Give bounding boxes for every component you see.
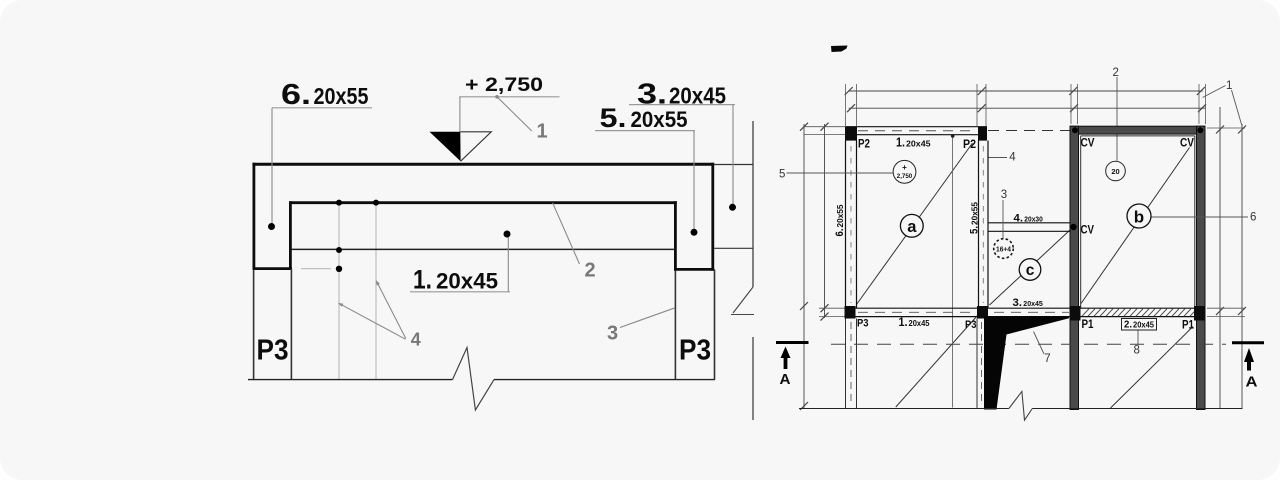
label 5.20x55 xyxy=(600,103,688,133)
svg-text:P3: P3 xyxy=(857,318,869,330)
right dimension line outer xyxy=(1238,124,1246,408)
callout 2 leader xyxy=(1116,77,1118,161)
label CV top-right xyxy=(1180,138,1194,150)
svg-text:a: a xyxy=(907,218,917,236)
P1 column right xyxy=(1194,306,1206,321)
label 6.20x55 xyxy=(281,79,369,111)
columns below P3 dashed xyxy=(846,319,987,409)
callout 7 xyxy=(1044,353,1050,365)
svg-text:3.: 3. xyxy=(637,79,667,111)
callout 3 leader xyxy=(1002,200,1004,238)
callout 3 xyxy=(1001,189,1007,201)
column P3 right outline xyxy=(675,269,714,379)
column P3 left outline xyxy=(254,269,292,380)
label 6.20x55 vertical xyxy=(834,204,846,236)
label 5.20x55 vertical xyxy=(968,202,980,234)
svg-text:20x55: 20x55 xyxy=(969,202,979,225)
callout 1 xyxy=(1226,80,1232,92)
stair cut wedge xyxy=(984,316,1069,410)
beam inner left edge xyxy=(289,201,292,268)
callout 1 leaders xyxy=(1203,86,1242,127)
svg-text:3: 3 xyxy=(607,323,618,345)
svg-text:1.: 1. xyxy=(896,136,905,150)
callout 8 leader xyxy=(1137,331,1139,346)
diagonal bay bottom-right xyxy=(1111,327,1194,409)
svg-text:20x45: 20x45 xyxy=(1133,321,1155,330)
label P2 right xyxy=(963,139,976,151)
svg-text:P3: P3 xyxy=(965,319,977,331)
label P3 plan left xyxy=(857,318,869,330)
svg-text:6.: 6. xyxy=(834,229,846,237)
section marker A right xyxy=(1232,343,1264,371)
beam row P3-P1 xyxy=(846,308,1206,316)
long dashed line xyxy=(831,343,1226,345)
svg-text:A: A xyxy=(780,372,792,388)
svg-text:A: A xyxy=(1246,374,1258,391)
title block mark xyxy=(831,46,848,53)
left dimension line outer xyxy=(800,123,808,410)
beam inner top chord xyxy=(289,201,677,204)
diagonal bay c xyxy=(990,230,1071,306)
svg-text:+: + xyxy=(902,163,907,172)
svg-text:20x30: 20x30 xyxy=(1024,214,1043,223)
ground line with break xyxy=(248,348,715,411)
vertical beam 5.20x55 xyxy=(979,141,989,309)
callout 2 elevation xyxy=(553,203,580,264)
hidden beam to CV dashed xyxy=(988,130,1070,132)
beam outer right edge xyxy=(711,163,714,271)
beam 4.20x30 xyxy=(988,223,1070,232)
svg-text:4.: 4. xyxy=(1014,212,1024,224)
svg-text:P2: P2 xyxy=(858,139,870,151)
callout 7 leader xyxy=(1034,332,1045,355)
beam soffit line xyxy=(291,248,675,250)
callout 4 xyxy=(1009,152,1016,164)
wall inner face lines xyxy=(1081,136,1195,308)
label 1.20x45 xyxy=(413,265,498,295)
svg-text:1: 1 xyxy=(1226,80,1232,92)
svg-text:1.: 1. xyxy=(899,317,908,329)
svg-text:20x55: 20x55 xyxy=(835,204,845,227)
svg-text:CV: CV xyxy=(1180,138,1194,150)
svg-text:20x55: 20x55 xyxy=(314,83,369,109)
left dimension line inner xyxy=(821,123,829,321)
right dimension line inner xyxy=(1216,107,1224,408)
callout 4 elevation with arrows xyxy=(338,280,406,339)
label 2.20x45 boxed xyxy=(1122,319,1157,331)
diagonal bay b xyxy=(1081,148,1190,304)
svg-text:P3: P3 xyxy=(257,335,289,367)
beam outer top chord xyxy=(252,163,714,166)
wall corner dots xyxy=(1072,127,1203,133)
circle 16+4 xyxy=(994,239,1014,259)
label P3 left xyxy=(257,335,289,367)
wall line right with break symbol xyxy=(731,121,754,420)
svg-text:CV: CV xyxy=(1081,138,1095,150)
svg-text:+ 2,750: + 2,750 xyxy=(465,74,543,96)
svg-text:P1: P1 xyxy=(1182,320,1195,332)
circle grid c xyxy=(1019,259,1041,281)
leader +2,750 xyxy=(459,95,559,132)
callout 5 leader xyxy=(787,172,894,174)
label P1 right xyxy=(1182,320,1195,332)
circle grid a xyxy=(900,214,923,237)
beam P2-P2 xyxy=(846,127,988,135)
svg-text:3: 3 xyxy=(1001,189,1007,201)
svg-text:2,750: 2,750 xyxy=(897,173,913,180)
hatched beam 2.20x45 xyxy=(1082,309,1194,317)
diagonal bay bottom-left xyxy=(896,316,978,408)
svg-text:6: 6 xyxy=(1250,211,1256,223)
beam outer left edge xyxy=(252,163,255,270)
label 3.20x45 plan xyxy=(1013,297,1044,309)
construction tick at notch xyxy=(301,268,331,270)
circle grid b xyxy=(1127,204,1151,228)
label 3.20x45 xyxy=(637,79,726,111)
svg-text:P3: P3 xyxy=(679,335,711,367)
callout 8 xyxy=(1134,344,1140,356)
extension lines above columns xyxy=(846,84,1206,126)
label 4.20x30 xyxy=(1014,212,1043,224)
svg-text:P1: P1 xyxy=(1082,319,1095,331)
leader 6.20x55 xyxy=(268,108,372,230)
callout 5 xyxy=(779,168,785,180)
beam notch bottom left xyxy=(253,267,293,270)
wall top CV xyxy=(1070,126,1205,134)
svg-text:2: 2 xyxy=(585,260,596,282)
leader 5.20x55 xyxy=(595,131,698,236)
callout 6 leader xyxy=(1152,216,1249,218)
svg-text:20x45: 20x45 xyxy=(909,319,931,328)
svg-text:CV: CV xyxy=(1081,225,1095,237)
svg-text:20: 20 xyxy=(1111,167,1119,176)
P1 column left xyxy=(1070,306,1081,321)
construction line x952 xyxy=(951,134,955,407)
label P2 left xyxy=(858,139,870,151)
level symbol +2,750 xyxy=(430,132,492,161)
callout 3 elevation xyxy=(620,308,675,328)
svg-text:20x45: 20x45 xyxy=(436,268,498,293)
svg-text:4: 4 xyxy=(411,330,421,350)
top dimension line 1 xyxy=(845,87,1205,95)
callout 2 xyxy=(1113,67,1119,79)
svg-text:20x45: 20x45 xyxy=(1023,299,1043,308)
P3 column left xyxy=(845,306,856,319)
label P3 plan middle xyxy=(965,319,977,331)
callout 4 leader xyxy=(989,157,1008,159)
svg-text:5.: 5. xyxy=(968,226,980,234)
svg-text:1: 1 xyxy=(537,120,548,142)
svg-text:20x45: 20x45 xyxy=(906,139,931,149)
svg-text:2: 2 xyxy=(1113,67,1119,79)
svg-text:P2: P2 xyxy=(963,139,976,151)
circle level 2750 xyxy=(893,160,916,183)
svg-text:c: c xyxy=(1026,262,1035,279)
circle 20 xyxy=(1106,161,1126,181)
P2 column left xyxy=(845,127,857,141)
construction line vertical x339 xyxy=(338,203,340,379)
svg-text:5: 5 xyxy=(779,168,785,180)
svg-text:20x55: 20x55 xyxy=(631,107,688,132)
vertical beam 6.20x55 xyxy=(846,141,857,309)
construction line vertical x376 xyxy=(375,203,377,379)
label 1.20x45 bottom xyxy=(899,317,931,329)
beam notch bottom right xyxy=(674,268,714,271)
svg-text:4: 4 xyxy=(1009,152,1016,164)
slab extension rectangle right xyxy=(714,165,753,249)
svg-text:5.: 5. xyxy=(600,103,627,133)
label +2,750 xyxy=(465,74,543,96)
right extension lines xyxy=(1207,128,1245,317)
top dimension line 2 xyxy=(847,104,1206,112)
rebar dots on inner chord xyxy=(336,200,379,272)
wall right CV xyxy=(1197,126,1206,409)
svg-text:16+4: 16+4 xyxy=(996,244,1012,253)
CV node dot middle xyxy=(1070,224,1076,230)
label CV middle xyxy=(1081,225,1095,237)
label 1.20x45 top xyxy=(896,136,931,150)
svg-text:b: b xyxy=(1134,207,1144,226)
callout 1 elevation xyxy=(537,120,548,142)
svg-text:8: 8 xyxy=(1134,344,1140,356)
wall left CV xyxy=(1070,126,1079,409)
diagonal bay a xyxy=(857,143,973,305)
label P3 right xyxy=(679,335,711,367)
leader 1.20x45 xyxy=(410,231,511,292)
svg-text:6.: 6. xyxy=(281,79,311,111)
svg-text:3.: 3. xyxy=(1013,297,1023,309)
P3 column middle xyxy=(977,306,988,319)
left extension lines xyxy=(804,127,846,317)
P2 column right xyxy=(978,127,987,141)
label CV top-left xyxy=(1081,138,1095,150)
svg-text:2.: 2. xyxy=(1124,319,1132,331)
callout 6 xyxy=(1250,211,1256,223)
section marker A left xyxy=(776,343,809,370)
svg-text:1.: 1. xyxy=(413,265,432,295)
plan bottom line with break xyxy=(799,391,1243,420)
label P1 left xyxy=(1082,319,1095,331)
beam inner right edge xyxy=(674,201,677,270)
leader 3.20x45 xyxy=(629,105,736,211)
svg-text:7: 7 xyxy=(1044,353,1050,365)
